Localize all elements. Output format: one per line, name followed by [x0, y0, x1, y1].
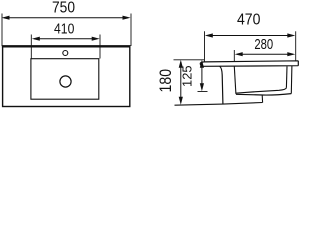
- bowl outer right wall (side view): [290, 66, 293, 94]
- dimension line 470: [205, 33, 295, 37]
- svg-text:125: 125: [180, 65, 195, 87]
- dimension line 180: [179, 60, 183, 105]
- svg-text:180: 180: [156, 69, 175, 93]
- extension line 750 right: [130, 14, 132, 47]
- basin interior bottom (side view): [236, 88, 287, 93]
- extension line 470 left: [204, 31, 206, 62]
- bowl outer left wall (side view): [220, 66, 223, 103]
- dimension line 750: [2, 16, 131, 20]
- dimension line 280: [235, 52, 296, 56]
- extension line 470/280 right: [295, 31, 297, 61]
- extension line 280 left: [233, 50, 235, 62]
- drain hole: [60, 76, 71, 87]
- tick line 180 top: [174, 59, 205, 61]
- bowl underside shelf (side view): [236, 94, 291, 95]
- svg-text:750: 750: [52, 0, 75, 16]
- svg-text:280: 280: [254, 37, 273, 53]
- svg-text:470: 470: [237, 12, 261, 29]
- extension line 410 right: [99, 35, 101, 59]
- basin inner bowl rectangle (plan view): [31, 59, 99, 99]
- svg-text:410: 410: [54, 21, 74, 37]
- basin outer top edge thick: [2, 45, 131, 47]
- dimension line 125: [200, 60, 204, 92]
- dimension line 410: [32, 37, 100, 41]
- basin interior right wall (side view): [285, 66, 288, 88]
- basin outer rectangle (plan view): [3, 46, 130, 106]
- faucet hole: [63, 51, 68, 56]
- washbasin rim slab (side view): [200, 61, 298, 67]
- extension line 410 left: [30, 35, 32, 59]
- bowl step right edge (side view): [261, 95, 263, 103]
- bowl bottom and 180 tick (side view): [175, 103, 263, 106]
- extension line 750 left: [1, 14, 3, 47]
- tick line 125 bottom: [198, 91, 208, 93]
- basin interior left wall (side view): [234, 66, 236, 94]
